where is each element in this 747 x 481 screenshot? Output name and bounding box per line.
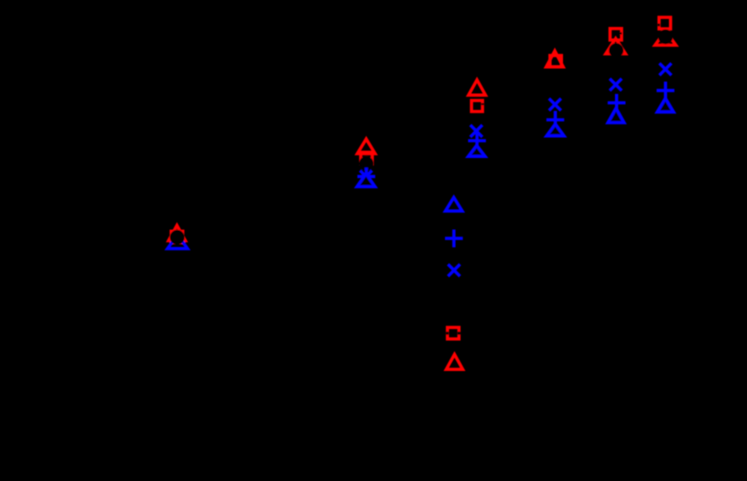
cluster x=3 : blue triangle marker (468, 145, 485, 156)
legend : blue plus marker (445, 230, 463, 248)
cluster x=6 : black circle marker (658, 29, 673, 44)
cluster x=2 : blue triangle marker (357, 174, 375, 187)
cluster x=6 : red triangle marker (655, 31, 676, 46)
cluster x=2 : black occluder under blue triangle (358, 175, 373, 187)
legend : square notch right edge (457, 332, 460, 335)
cluster x=5 : blue triangle marker (608, 108, 624, 123)
cluster x=6 : square notch left edge (658, 24, 661, 27)
cluster x=4 : red triangle marker (546, 51, 563, 67)
cluster x=6 : red square marker (659, 17, 671, 29)
cluster x=4 : red square marker (550, 56, 561, 67)
cluster x=3 : black occluder under blue triangle (470, 147, 485, 157)
cluster x=5 : square notch right edge (619, 32, 622, 34)
cluster x=3 : blue x marker (470, 125, 482, 137)
cluster x=2 : red triangle marker (357, 139, 375, 154)
cluster x=5 : blue plus marker (608, 94, 626, 112)
cluster x=1 : red triangle marker (169, 225, 186, 240)
cluster x=2 : red square marker (361, 152, 373, 164)
cluster x=5 : black circle marker (609, 43, 624, 58)
legend : square notch left edge (446, 332, 449, 335)
legend : blue triangle marker (445, 197, 462, 211)
cluster x=4 : blue x marker (549, 99, 561, 111)
cluster x=2 : black circle marker (359, 156, 374, 171)
cluster x=6 : black occluder under blue triangle (658, 100, 672, 112)
cluster x=2 : blue x marker (360, 171, 372, 183)
cluster x=5 : red square marker (610, 29, 622, 41)
cluster x=1 : blue triangle marker (168, 235, 188, 249)
cluster x=3 : red triangle marker (469, 80, 486, 95)
cluster x=3 : red square marker (472, 101, 483, 112)
cluster x=4 : blue triangle marker (547, 124, 564, 136)
cluster x=2 : blue plus marker (357, 168, 375, 186)
legend : red triangle marker (446, 354, 463, 369)
legend : red square marker (447, 327, 459, 339)
cluster x=1 : black circle marker (170, 230, 185, 245)
cluster x=4 : blue plus marker (546, 111, 564, 129)
cluster x=5 : black occluder under blue triangle (609, 110, 624, 123)
cluster x=3 : square notch right edge (481, 103, 484, 105)
cluster x=6 : blue plus marker (657, 82, 675, 100)
cluster x=6 : blue triangle marker (657, 98, 673, 112)
cluster x=3 : blue plus marker (468, 132, 486, 150)
cluster x=5 : blue x marker (610, 79, 622, 91)
cluster x=6 : blue x marker (659, 63, 671, 75)
cluster x=4 : black occluder under blue triangle (548, 125, 564, 136)
legend : blue x marker (448, 264, 460, 276)
cluster x=1 : red square marker (hidden mostly) (171, 231, 183, 243)
cluster x=5 : red triangle marker (606, 38, 626, 53)
